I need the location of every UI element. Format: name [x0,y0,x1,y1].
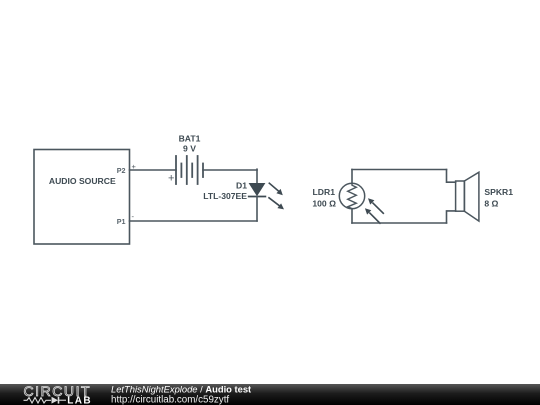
wire: top-right corner down to LED anode [256,169,258,183]
battery BAT1 [176,156,203,184]
wire: LDR top lead [351,170,353,184]
wire: battery negative to top-right corner [203,169,257,171]
wire: box P2 to battery positive [130,169,177,171]
svg-text:BAT1: BAT1 [179,134,201,144]
svg-text:LetThisNightExplode / Audio te: LetThisNightExplode / Audio test [111,383,251,394]
svg-text:P2: P2 [117,166,126,175]
svg-text:-: - [132,212,135,221]
svg-text:http://circuitlab.com/c59zytf: http://circuitlab.com/c59zytf [111,395,229,405]
svg-text:P1: P1 [117,217,126,226]
circuitlab logo resistor zigzag [24,398,52,404]
svg-text:9 V: 9 V [183,144,196,154]
svg-text:100 Ω: 100 Ω [312,199,336,209]
LED D1 cathode bar [249,196,266,198]
wire: right loop right side bottom jog [447,211,456,223]
svg-text:LAB: LAB [67,395,92,405]
photoresistor LDR1 light arrow lower [365,208,380,223]
LED D1 emission arrow upper [269,183,283,195]
svg-text:D1: D1 [236,181,247,191]
svg-text:LDR1: LDR1 [313,187,336,197]
svg-text:AUDIO SOURCE: AUDIO SOURCE [49,176,116,186]
svg-text:LTL-307EE: LTL-307EE [203,191,247,201]
wire: right loop top rail [352,169,447,171]
svg-text:SPKR1: SPKR1 [484,187,513,197]
LED D1 emission arrow lower [269,198,284,210]
photoresistor LDR1 zigzag [348,183,357,208]
photoresistor LDR1 body circle [339,183,364,208]
footer bar [0,384,540,405]
wire: LDR bottom lead [351,209,353,223]
wire: right loop bottom rail [352,222,447,224]
wire: LED cathode down to bottom-right corner [256,197,258,222]
photoresistor LDR1 light arrow upper [368,198,383,213]
svg-text:+: + [168,172,174,184]
wire: bottom rail corner to box P1 [130,220,258,222]
speaker SPKR1 body rectangle [456,181,465,211]
audio source box U1 [34,150,130,245]
speaker SPKR1 cone [464,172,479,221]
circuitlab logo diode [52,397,59,404]
wire: right loop right side top jog [447,170,456,183]
svg-text:8 Ω: 8 Ω [484,199,498,209]
LED D1 triangle [250,184,265,196]
